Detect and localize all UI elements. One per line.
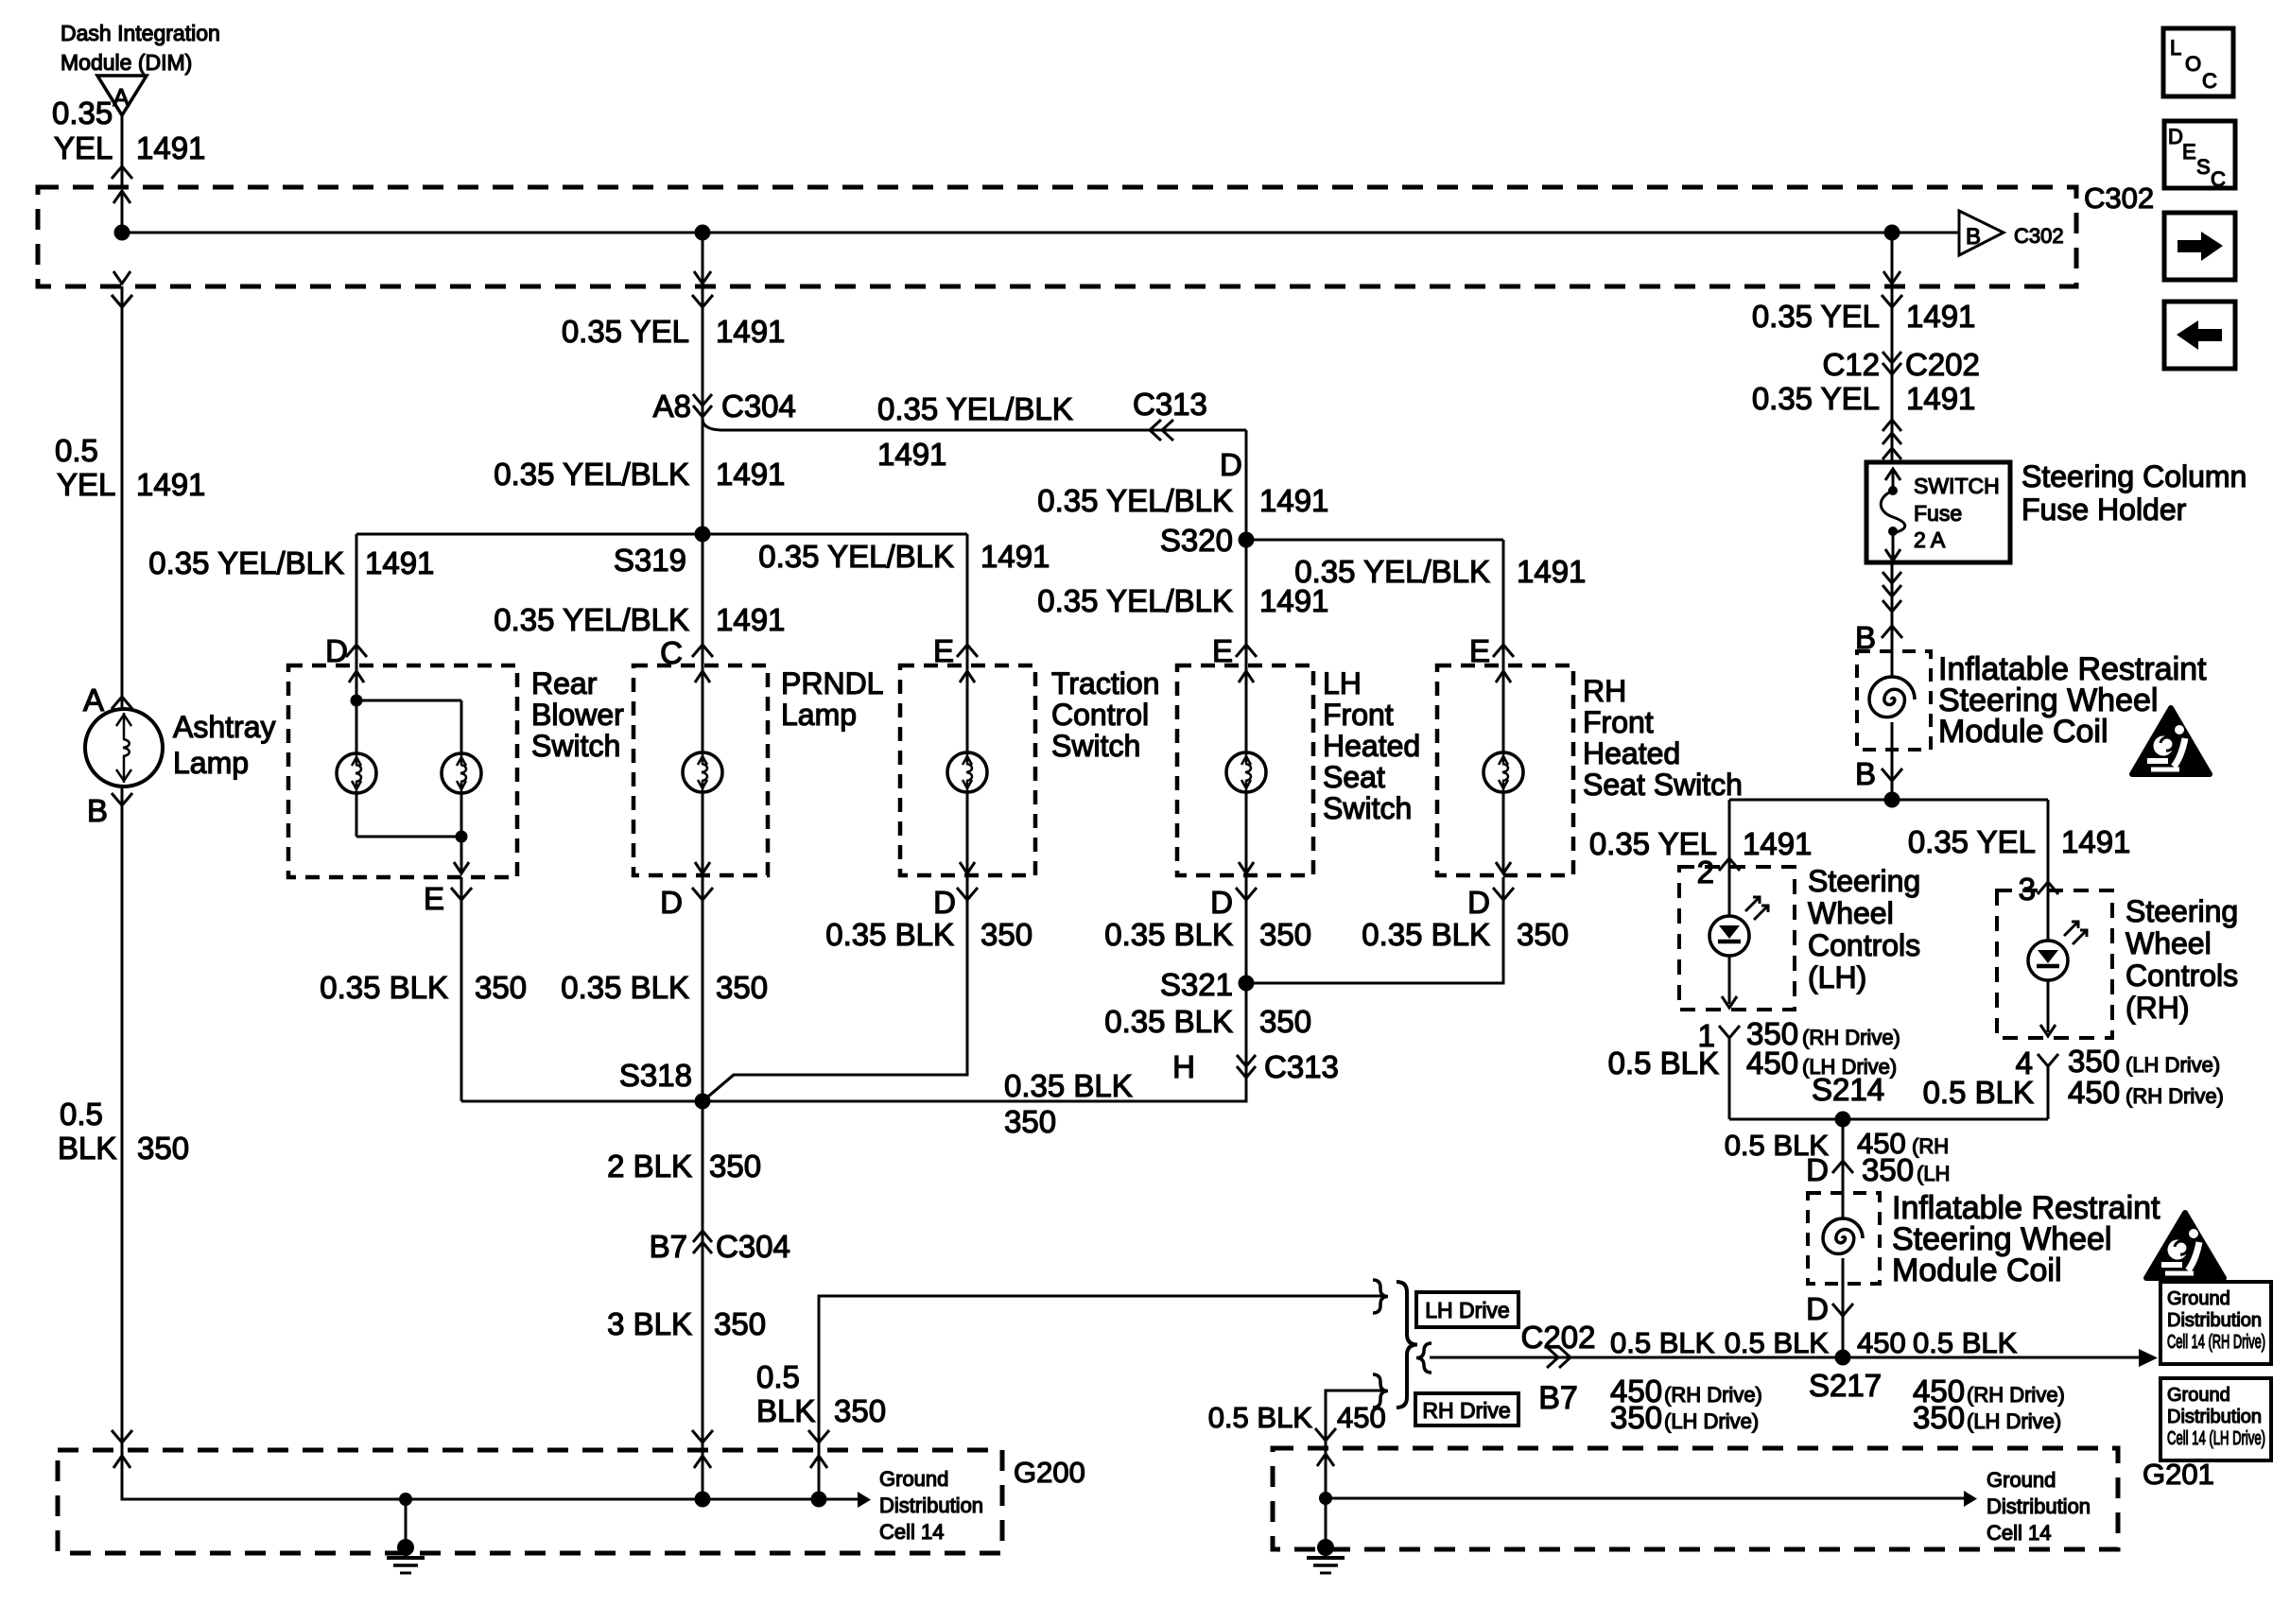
svg-text:D: D <box>1806 1152 1829 1187</box>
svg-text:Control: Control <box>1051 698 1149 732</box>
svg-text:D: D <box>1806 1291 1829 1326</box>
svg-text:Switch: Switch <box>531 729 620 763</box>
svg-text:Steering: Steering <box>1808 864 1920 898</box>
svg-text:Heated: Heated <box>1583 736 1680 770</box>
svg-text:Lamp: Lamp <box>781 698 857 732</box>
svg-text:1491: 1491 <box>2061 824 2130 859</box>
steering wheel controls RH dashed box <box>1997 890 2112 1038</box>
svg-text:C302: C302 <box>2084 181 2154 215</box>
svg-text:350: 350 <box>709 1149 761 1183</box>
svg-text:(RH): (RH) <box>2126 991 2190 1025</box>
rear blower switch lamps <box>349 671 364 682</box>
svg-text:C302: C302 <box>2014 224 2064 248</box>
svg-text:350: 350 <box>1259 917 1311 952</box>
ground point G200 <box>399 1493 412 1506</box>
svg-text:O: O <box>2185 52 2201 76</box>
junction to PRNDL feed <box>695 225 711 241</box>
svg-text:Front: Front <box>1323 698 1394 732</box>
wire 350 LH drive branch <box>819 1296 1384 1499</box>
svg-text:1491: 1491 <box>136 467 205 502</box>
svg-text:0.35 YEL/BLK: 0.35 YEL/BLK <box>877 391 1073 426</box>
PRNDL lamp symbol <box>695 671 710 682</box>
wire 350 RH seat to S321 <box>1246 877 1503 983</box>
svg-text:Traction: Traction <box>1051 666 1159 700</box>
rear blower switch dashed box <box>288 665 517 877</box>
svg-text:0.35 BLK: 0.35 BLK <box>1004 1068 1133 1103</box>
splice S217 <box>1835 1350 1851 1366</box>
svg-text:0.35 YEL/BLK: 0.35 YEL/BLK <box>758 539 954 574</box>
svg-text:Dash Integration: Dash Integration <box>61 21 220 45</box>
svg-text:(LH: (LH <box>1917 1162 1950 1185</box>
wire RH drive into G201 <box>1315 1428 1336 1441</box>
svg-text:0.5: 0.5 <box>60 1097 103 1132</box>
svg-text:C313: C313 <box>1264 1049 1339 1084</box>
ashtray lamp <box>85 709 163 786</box>
svg-text:PRNDL: PRNDL <box>781 666 883 700</box>
coil spiral symbol (upper) <box>1891 651 1894 677</box>
wire 1491 coil to SWC bus <box>1891 750 1894 800</box>
wire 350 PRNDL to S318 <box>702 877 704 1101</box>
svg-text:Wheel: Wheel <box>1808 896 1894 930</box>
svg-text:Controls: Controls <box>1808 928 1920 962</box>
svg-text:Ashtray: Ashtray <box>173 710 275 744</box>
svg-text:D: D <box>933 885 956 920</box>
svg-text:SWITCH: SWITCH <box>1914 474 2000 498</box>
wire 450 RH drive branch <box>1326 1391 1384 1499</box>
svg-text:0.35 BLK: 0.35 BLK <box>561 970 689 1005</box>
terminal D RH seat out <box>1493 888 1514 900</box>
svg-text:C202: C202 <box>1905 347 1980 382</box>
svg-text:Fuse Holder: Fuse Holder <box>2021 492 2187 527</box>
left arrow legend box <box>2164 302 2235 369</box>
svg-text:S318: S318 <box>619 1058 692 1093</box>
svg-text:D: D <box>660 885 683 920</box>
svg-text:L: L <box>2170 36 2181 60</box>
svg-text:B: B <box>1855 756 1876 791</box>
svg-text:YEL: YEL <box>54 130 113 165</box>
wire bus 1491 inside C302 <box>122 232 1959 234</box>
wire 1491 center drop <box>702 286 704 534</box>
svg-text:C: C <box>2211 167 2226 191</box>
ground G201 dashed box <box>1273 1448 2118 1549</box>
ground point G201 <box>1319 1492 1332 1505</box>
svg-text:350: 350 <box>716 970 768 1005</box>
wire coil to S217 <box>1842 1284 1845 1357</box>
svg-text:Module Coil: Module Coil <box>1938 714 2108 750</box>
ground bus G201 <box>1325 1448 1327 1547</box>
wire 350 LH seat to S321 <box>1245 877 1248 983</box>
svg-text:B7: B7 <box>650 1229 687 1264</box>
svg-text:S319: S319 <box>614 543 686 578</box>
svg-text:B: B <box>87 793 108 828</box>
svg-text:1491: 1491 <box>1906 381 1975 416</box>
wire drop to traction control switch <box>966 534 969 665</box>
wire 1491 left drop (0.5 YEL) <box>121 286 124 709</box>
svg-text:1491: 1491 <box>716 314 785 349</box>
svg-text:0.35 YEL/BLK: 0.35 YEL/BLK <box>1037 483 1233 518</box>
svg-text:0.5 BLK: 0.5 BLK <box>1913 1326 2018 1359</box>
svg-text:350: 350 <box>1610 1400 1662 1435</box>
svg-text:0.35 BLK: 0.35 BLK <box>1362 917 1490 952</box>
svg-text:G200: G200 <box>1014 1456 1085 1489</box>
svg-text:(RH Drive): (RH Drive) <box>1967 1383 2065 1407</box>
svg-text:RH Drive: RH Drive <box>1422 1398 1510 1423</box>
svg-text:D: D <box>325 633 348 668</box>
svg-text:0.35 BLK: 0.35 BLK <box>825 917 954 952</box>
svg-text:3 BLK: 3 BLK <box>607 1306 692 1341</box>
inflatable restraint steering wheel module coil dashed box (upper) <box>1857 651 1931 750</box>
wire bus 450/350 S217 <box>1430 1356 2139 1359</box>
svg-text:1491: 1491 <box>1259 483 1328 518</box>
svg-text:A: A <box>83 682 104 717</box>
fuse SWITCH 2A symbol <box>1885 469 1900 480</box>
brace LH drive wire end <box>1373 1280 1388 1313</box>
svg-text:350: 350 <box>1862 1152 1914 1187</box>
DESC legend box <box>2164 121 2235 188</box>
svg-text:Distribution: Distribution <box>1987 1494 2091 1518</box>
svg-text:Cell 14 (RH Drive): Cell 14 (RH Drive) <box>2167 1332 2265 1353</box>
svg-text:S320: S320 <box>1160 523 1233 558</box>
svg-text:H: H <box>1172 1049 1195 1084</box>
coil spiral symbol (lower) <box>1842 1193 1845 1218</box>
LH front heated seat switch dashed box <box>1177 665 1313 875</box>
splice S321 <box>1239 976 1255 992</box>
ground distribution cell 14 LH Drive box <box>2160 1378 2271 1460</box>
svg-text:Ground: Ground <box>2167 1288 2230 1309</box>
svg-text:C313: C313 <box>1133 387 1207 422</box>
connector triangle A to DIM <box>97 76 147 115</box>
svg-text:1491: 1491 <box>980 539 1050 574</box>
wire 350 center to G200 <box>702 1101 704 1499</box>
chevron below C302 left <box>112 295 132 307</box>
svg-text:LH: LH <box>1323 666 1362 700</box>
svg-text:Cell 14 (LH Drive): Cell 14 (LH Drive) <box>2167 1428 2265 1449</box>
svg-text:350: 350 <box>475 970 527 1005</box>
svg-text:S321: S321 <box>1160 967 1233 1002</box>
svg-text:BLK: BLK <box>58 1131 116 1166</box>
wire into G200 from ashtray branch <box>112 1430 132 1443</box>
svg-text:1491: 1491 <box>1906 299 1975 334</box>
wire drop to PRNDL lamp <box>702 534 704 665</box>
svg-text:0.35 YEL/BLK: 0.35 YEL/BLK <box>1294 554 1490 589</box>
svg-text:0.35 YEL/BLK: 0.35 YEL/BLK <box>148 545 344 580</box>
svg-text:(LH Drive): (LH Drive) <box>2126 1053 2220 1077</box>
svg-text:0.35 YEL/BLK: 0.35 YEL/BLK <box>1037 583 1233 618</box>
svg-text:A: A <box>113 83 130 112</box>
svg-text:0.35 BLK: 0.35 BLK <box>1104 917 1233 952</box>
svg-text:Controls: Controls <box>2126 959 2238 993</box>
svg-text:Distribution: Distribution <box>879 1494 983 1517</box>
svg-text:G201: G201 <box>2143 1458 2214 1491</box>
wire 1491 from DIM triangle A <box>121 115 124 187</box>
airbag warning triangle (upper) <box>2132 708 2210 774</box>
svg-text:E: E <box>1212 633 1233 668</box>
svg-text:S: S <box>2196 155 2211 179</box>
svg-text:A8: A8 <box>653 389 691 423</box>
wire drop to rear blower switch <box>356 534 358 665</box>
ground distribution cell 14 RH Drive box <box>2160 1282 2271 1364</box>
svg-text:1491: 1491 <box>1743 826 1812 861</box>
wire 350 traction to S318 <box>703 877 967 1101</box>
svg-text:S217: S217 <box>1809 1368 1882 1403</box>
svg-text:350: 350 <box>1517 917 1569 952</box>
svg-text:Front: Front <box>1583 705 1654 739</box>
wire drop to S320 <box>1245 430 1248 540</box>
svg-text:450: 450 <box>1746 1045 1798 1080</box>
svg-text:Rear: Rear <box>531 666 598 700</box>
LED lamp SWC RH <box>2047 890 2050 941</box>
junction steering wheel controls feed <box>1884 792 1900 808</box>
svg-text:0.35 YEL: 0.35 YEL <box>562 314 689 349</box>
svg-text:350: 350 <box>1004 1104 1056 1139</box>
svg-text:0.35 YEL/BLK: 0.35 YEL/BLK <box>494 457 689 492</box>
svg-text:(LH): (LH) <box>1808 960 1866 994</box>
splice S319 <box>695 527 711 543</box>
RH heated seat switch lamp <box>1496 671 1511 682</box>
RH Drive box label <box>1415 1393 1518 1425</box>
steering column fuse holder box <box>1866 462 2010 562</box>
wire 1491 to SWC RH <box>2047 800 2050 890</box>
svg-text:B: B <box>1966 224 1981 250</box>
svg-text:0.5 BLK: 0.5 BLK <box>1725 1326 1830 1359</box>
steering wheel controls LH dashed box <box>1679 867 1795 1010</box>
svg-text:1491: 1491 <box>877 437 946 472</box>
svg-text:0.35 YEL: 0.35 YEL <box>1752 299 1880 334</box>
wire bus 1491 steering wheel controls <box>1729 799 2048 802</box>
svg-text:Blower: Blower <box>531 698 624 732</box>
svg-text:Wheel: Wheel <box>2126 926 2212 960</box>
connector triangle B C302 <box>1959 211 2004 255</box>
wire 1491 to steering column fuse holder <box>1891 233 1894 462</box>
svg-text:Distribution: Distribution <box>2167 1407 2262 1427</box>
wire LH drive into G200 <box>808 1430 829 1443</box>
wire 1491 fuse to coil <box>1891 562 1894 651</box>
svg-text:1491: 1491 <box>136 130 205 165</box>
svg-text:Steering Column: Steering Column <box>2021 459 2247 493</box>
terminal D traction out <box>957 888 978 900</box>
inflatable restraint steering wheel module coil dashed box (lower) <box>1808 1193 1880 1284</box>
svg-text:350: 350 <box>980 917 1032 952</box>
terminal D PRNDL out <box>692 888 713 900</box>
wire 350 S321 to S318 <box>703 983 1246 1101</box>
svg-text:LH Drive: LH Drive <box>1425 1298 1509 1322</box>
svg-text:Module (DIM): Module (DIM) <box>61 50 192 75</box>
svg-text:1491: 1491 <box>365 545 434 580</box>
svg-text:Ground: Ground <box>879 1467 948 1491</box>
svg-text:Seat Switch: Seat Switch <box>1583 768 1743 802</box>
splice S318 <box>695 1094 711 1110</box>
splice S214 bus <box>1729 1118 2048 1121</box>
svg-text:Switch: Switch <box>1051 729 1140 763</box>
svg-text:2 A: 2 A <box>1914 527 1946 552</box>
svg-text:C: C <box>2202 69 2217 93</box>
wire center into G200 <box>692 1430 713 1443</box>
wire 1491 branch to C313 <box>703 419 1246 430</box>
svg-text:0.35 YEL/BLK: 0.35 YEL/BLK <box>494 602 689 637</box>
break chevrons below fuse holder <box>1883 572 1901 583</box>
svg-text:Steering: Steering <box>2126 894 2238 928</box>
svg-text:350: 350 <box>714 1306 766 1341</box>
svg-text:0.35 YEL: 0.35 YEL <box>1908 824 2036 859</box>
svg-text:0.35: 0.35 <box>52 95 113 130</box>
wire S214 to lower coil <box>1842 1119 1845 1193</box>
junction to steering column feed <box>1884 225 1900 241</box>
svg-text:(RH Drive): (RH Drive) <box>1802 1026 1900 1049</box>
svg-text:Switch: Switch <box>1323 791 1412 825</box>
svg-text:350: 350 <box>834 1393 886 1428</box>
svg-text:0.5 BLK: 0.5 BLK <box>1923 1075 2034 1110</box>
svg-text:1491: 1491 <box>1517 554 1586 589</box>
airbag warning triangle (lower) <box>2146 1213 2224 1278</box>
svg-text:0.5 BLK: 0.5 BLK <box>1208 1401 1313 1434</box>
wire 350 rear blower to S318 <box>460 877 463 1101</box>
terminal 1 SWC LH <box>1719 1026 1740 1038</box>
wire drop to RH heated seat switch <box>1502 540 1505 665</box>
svg-text:450: 450 <box>1857 1326 1906 1359</box>
svg-text:0.5 BLK: 0.5 BLK <box>1608 1045 1719 1080</box>
ground G200 dashed box <box>58 1450 1002 1553</box>
LH Drive box label <box>1416 1292 1518 1327</box>
arrow to ground distribution (right) <box>2139 1349 2158 1367</box>
svg-text:D: D <box>1467 885 1490 920</box>
svg-text:2 BLK: 2 BLK <box>607 1149 692 1183</box>
traction control switch dashed box <box>900 665 1035 875</box>
svg-text:(LH Drive): (LH Drive) <box>1967 1409 2061 1433</box>
svg-text:350: 350 <box>1259 1004 1311 1039</box>
svg-text:C12: C12 <box>1822 347 1880 382</box>
svg-text:C304: C304 <box>716 1229 790 1264</box>
svg-text:Heated: Heated <box>1323 729 1420 763</box>
svg-text:Cell 14: Cell 14 <box>879 1520 944 1544</box>
svg-text:350: 350 <box>2068 1044 2120 1079</box>
svg-text:Ground: Ground <box>2167 1385 2230 1406</box>
svg-text:S214: S214 <box>1812 1072 1884 1107</box>
svg-text:Cell 14: Cell 14 <box>1987 1521 2051 1545</box>
svg-text:B7: B7 <box>1538 1380 1578 1416</box>
wire bus S320 <box>1246 539 1503 542</box>
svg-text:0.35 YEL: 0.35 YEL <box>1752 381 1880 416</box>
terminal 4 SWC RH <box>2038 1054 2058 1066</box>
svg-text:E: E <box>424 881 444 916</box>
svg-text:Seat: Seat <box>1323 760 1385 794</box>
terminal B ashtray lamp <box>112 793 132 805</box>
svg-text:(RH: (RH <box>1912 1134 1949 1158</box>
svg-text:RH: RH <box>1583 674 1626 708</box>
ground bus G200 <box>122 1444 858 1499</box>
svg-text:Lamp: Lamp <box>173 746 249 780</box>
terminal D LH seat out <box>1236 888 1257 900</box>
svg-text:Module Coil: Module Coil <box>1892 1253 2062 1288</box>
svg-text:Distribution: Distribution <box>2167 1310 2262 1331</box>
svg-text:(RH Drive): (RH Drive) <box>1664 1383 1762 1407</box>
brace RH drive wire end <box>1373 1374 1388 1408</box>
brace group S217 feed <box>1397 1282 1417 1408</box>
right arrow legend box <box>2164 213 2235 280</box>
junction at DIM drop <box>114 225 130 241</box>
svg-text:E: E <box>2182 140 2196 164</box>
splice S320 <box>1239 532 1255 548</box>
svg-text:BLK: BLK <box>756 1393 815 1428</box>
svg-text:0.5: 0.5 <box>55 433 98 468</box>
svg-text:C304: C304 <box>721 389 796 423</box>
break chevrons above fuse holder <box>1883 420 1901 431</box>
svg-text:0.5: 0.5 <box>756 1359 800 1394</box>
wire drop to LH heated seat switch <box>1245 540 1248 665</box>
wire 1491 to SWC LH <box>1728 800 1731 867</box>
svg-text:0.5 BLK: 0.5 BLK <box>1610 1326 1715 1359</box>
svg-text:E: E <box>933 633 954 668</box>
svg-text:0.35 BLK: 0.35 BLK <box>1104 1004 1233 1039</box>
terminal E rear blower out <box>451 888 472 900</box>
svg-text:YEL: YEL <box>57 467 115 502</box>
LOC legend box <box>2163 28 2233 96</box>
svg-text:1491: 1491 <box>716 602 785 637</box>
svg-text:D: D <box>2168 125 2183 148</box>
svg-text:(RH Drive): (RH Drive) <box>2126 1084 2224 1108</box>
svg-text:350: 350 <box>1913 1400 1965 1435</box>
traction control switch lamp <box>960 671 975 682</box>
svg-text:2: 2 <box>1697 855 1714 890</box>
svg-text:1491: 1491 <box>716 457 785 492</box>
RH front heated seat switch dashed box <box>1437 665 1573 875</box>
svg-text:450: 450 <box>2068 1075 2120 1110</box>
wire 350 left drop (0.5 BLK) <box>121 786 124 1499</box>
svg-text:350: 350 <box>137 1131 189 1166</box>
svg-text:0.35 BLK: 0.35 BLK <box>320 970 448 1005</box>
svg-text:C202: C202 <box>1521 1320 1596 1355</box>
PRNDL lamp dashed box <box>633 665 768 875</box>
svg-text:E: E <box>1469 633 1490 668</box>
wire to S214 (LH) <box>1728 1038 1731 1119</box>
LH heated seat switch lamp <box>1239 671 1254 682</box>
svg-text:D: D <box>1220 447 1242 482</box>
svg-text:Ground: Ground <box>1987 1468 2056 1492</box>
wire to S214 (RH) <box>2047 1066 2050 1119</box>
LED lamp SWC LH <box>1728 867 1731 916</box>
svg-text:D: D <box>1210 885 1233 920</box>
svg-text:(LH Drive): (LH Drive) <box>1664 1409 1759 1433</box>
wire bus S319 <box>356 533 967 536</box>
svg-text:Fuse: Fuse <box>1914 501 1962 526</box>
connector C302 instrument panel harness dashed box <box>38 187 2076 286</box>
